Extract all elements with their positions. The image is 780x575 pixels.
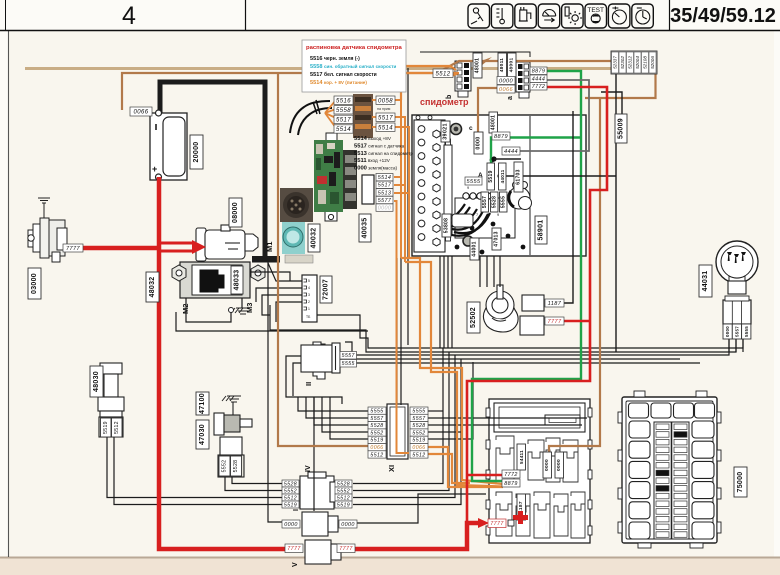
svg-text:44001: 44001 [472,241,478,256]
svg-text:I: I [293,509,300,511]
svg-text:XI: XI [387,465,396,472]
svg-text:5516: 5516 [336,98,351,104]
svg-text:8879: 8879 [504,481,518,487]
svg-text:03000: 03000 [31,273,38,294]
svg-text:52006: 52006 [650,56,655,69]
svg-text:5577: 5577 [378,198,392,204]
svg-text:на прим: на прим [377,107,391,111]
svg-text:0000: 0000 [725,326,730,337]
svg-text:35/49/59.12: 35/49/59.12 [670,5,776,27]
svg-text:44011: 44011 [500,169,505,183]
svg-text:II: II [304,382,313,386]
svg-text:9: 9 [467,186,469,190]
svg-text:5512: 5512 [370,452,383,458]
svg-text:5555: 5555 [466,179,481,185]
svg-text:4444: 4444 [504,149,518,155]
svg-text:4444: 4444 [532,77,546,83]
svg-text:8879: 8879 [532,69,546,75]
svg-text:a: a [507,96,514,100]
svg-text:8879: 8879 [494,134,508,140]
svg-text:0000: 0000 [341,522,355,528]
svg-text:5555: 5555 [744,326,749,337]
svg-text:39021: 39021 [443,123,449,140]
svg-text:75000: 75000 [737,472,744,493]
svg-text:5552: 5552 [284,488,297,494]
svg-text:5558: 5558 [336,108,351,114]
svg-text:1187: 1187 [548,301,562,307]
svg-text:IV: IV [305,465,312,472]
svg-text:5528: 5528 [233,460,239,473]
svg-text:5552: 5552 [337,488,350,494]
svg-text:0000: 0000 [284,522,298,528]
svg-text:b: b [446,95,453,99]
svg-text:распиновка датчика спидометра: распиновка датчика спидометра [306,45,403,51]
svg-text:5512: 5512 [412,452,425,458]
svg-text:47030: 47030 [199,424,206,445]
svg-text:52312: 52312 [628,56,633,69]
svg-text:M3: M3 [245,303,254,313]
svg-text:спидометр: спидометр [420,97,469,107]
svg-text:6: 6 [487,213,489,217]
svg-text:61703: 61703 [516,169,522,184]
svg-text:7777: 7777 [490,521,504,527]
svg-text:4: 4 [308,286,310,290]
svg-text:5513: 5513 [378,190,392,196]
svg-text:0000: 0000 [476,136,482,149]
svg-text:5: 5 [308,279,310,283]
svg-text:0066: 0066 [499,87,514,93]
svg-text:5528: 5528 [337,481,350,487]
svg-text:40035: 40035 [362,218,369,239]
svg-text:5528: 5528 [370,423,383,429]
svg-text:7777: 7777 [66,246,81,252]
svg-text:3: 3 [308,293,310,297]
svg-text:0000: 0000 [378,206,392,212]
svg-text:5557: 5557 [734,326,739,337]
svg-text:7772: 7772 [532,84,546,90]
svg-text:TEST: TEST [587,7,604,14]
svg-text:c: c [469,125,473,132]
svg-text:47013: 47013 [494,231,500,246]
svg-text:48033: 48033 [234,270,241,291]
svg-text:47100: 47100 [199,393,206,414]
svg-text:0066: 0066 [412,445,425,451]
svg-text:5512: 5512 [337,495,350,501]
svg-text:48011: 48011 [499,58,505,73]
svg-text:5557: 5557 [370,416,384,422]
svg-text:5555: 5555 [370,409,383,415]
svg-text:7777: 7777 [547,319,562,325]
svg-text:5517: 5517 [336,118,351,124]
svg-text:7777: 7777 [339,546,353,552]
svg-text:55009: 55009 [618,118,625,139]
svg-text:5555: 5555 [342,361,355,367]
svg-text:1: 1 [308,307,310,311]
svg-text:5555: 5555 [412,409,425,415]
svg-text:5528: 5528 [284,481,297,487]
svg-text:54411: 54411 [519,450,524,464]
svg-text:0058: 0058 [378,98,393,104]
svg-text:0000: 0000 [556,459,562,471]
svg-text:52337: 52337 [613,56,618,69]
svg-text:52004: 52004 [635,56,640,69]
svg-text:5519: 5519 [412,438,425,444]
svg-text:20000: 20000 [193,142,200,163]
svg-text:5514: 5514 [378,175,392,181]
svg-text:5552: 5552 [222,460,228,473]
svg-text:7777: 7777 [287,546,301,552]
svg-text:0066: 0066 [134,110,149,116]
svg-text:48030: 48030 [93,371,100,392]
svg-text:5519: 5519 [284,502,297,508]
svg-text:5514: 5514 [336,127,351,133]
svg-text:5517: 5517 [378,183,392,189]
svg-text:58901: 58901 [538,220,545,241]
svg-text:2: 2 [308,300,310,304]
svg-text:4: 4 [122,2,136,30]
svg-text:5557: 5557 [412,416,426,422]
svg-text:52502: 52502 [470,307,477,328]
svg-text:5557: 5557 [482,196,488,208]
svg-text:0000: 0000 [499,79,514,85]
svg-text:48032: 48032 [149,277,156,298]
svg-text:5516 черн. земля (-): 5516 черн. земля (-) [310,56,360,62]
svg-text:53808: 53808 [444,218,450,233]
svg-text:40032: 40032 [311,228,318,249]
svg-text:5528: 5528 [491,196,497,208]
svg-text:M1: M1 [265,242,274,252]
svg-text:5552: 5552 [412,430,425,436]
svg-text:5512: 5512 [284,495,297,501]
svg-text:M2: M2 [181,304,190,314]
svg-text:5517: 5517 [378,115,393,121]
svg-text:+: + [152,164,157,174]
svg-text:0000: 0000 [544,459,550,471]
svg-text:0066: 0066 [370,445,383,451]
svg-text:5512: 5512 [436,71,451,77]
svg-text:5519: 5519 [370,438,383,444]
svg-text:V: V [292,562,299,567]
svg-text:5558 син. обратный сигнал скор: 5558 син. обратный сигнал скорости [310,63,397,70]
svg-text:52108: 52108 [643,56,648,69]
svg-text:9: 9 [497,213,499,217]
svg-text:48001: 48001 [508,58,514,73]
svg-text:52302: 52302 [620,56,625,69]
svg-text:5528: 5528 [412,423,425,429]
svg-text:08000: 08000 [232,202,239,223]
svg-text:48001: 48001 [490,115,496,130]
svg-text:5557: 5557 [342,353,356,359]
svg-text:5514: 5514 [378,125,393,131]
svg-text:44031: 44031 [702,271,709,292]
svg-text:5555: 5555 [500,196,506,208]
svg-text:7772: 7772 [504,472,518,478]
svg-text:5519: 5519 [103,421,109,434]
svg-text:48001: 48001 [475,58,481,73]
svg-text:5517 бел. сигнал скорости: 5517 бел. сигнал скорости [310,71,377,78]
svg-text:5552: 5552 [370,430,383,436]
svg-text:5512: 5512 [114,421,120,434]
svg-text:72007: 72007 [323,279,330,300]
svg-text:5519: 5519 [488,170,494,182]
svg-text:7: 7 [476,213,478,217]
svg-text:5519: 5519 [337,502,350,508]
